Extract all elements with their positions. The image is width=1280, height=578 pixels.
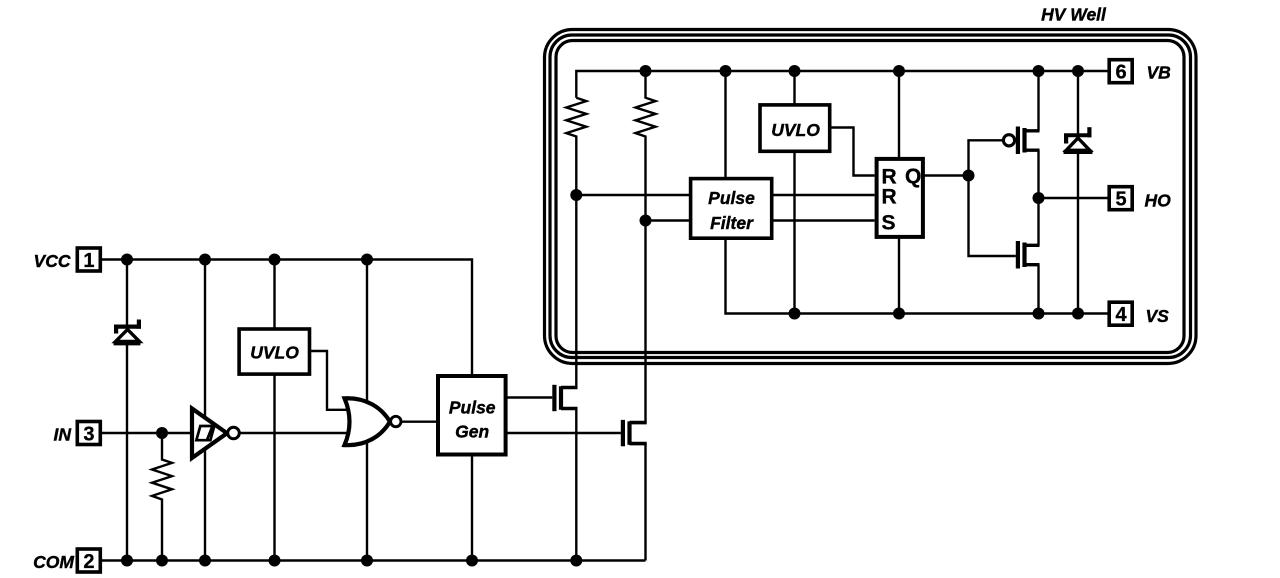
junction dot R3 node	[640, 215, 652, 227]
svg-text:4: 4	[1115, 304, 1127, 326]
wire Q1 source to VB rail	[1037, 71, 1039, 131]
wire zener D2 branch VB to VS	[1077, 71, 1079, 314]
svg-text:VS: VS	[1146, 306, 1170, 326]
wire zener D1 branch VCC to COM	[126, 260, 128, 561]
wire UVLO U1 branch VCC to COM	[273, 260, 275, 561]
wire latch Q output	[924, 174, 969, 176]
junction dot Q gate net	[963, 170, 975, 182]
resistor R1 pulldown on IN	[152, 433, 172, 561]
wire NOR output to Pulse Gen	[402, 421, 437, 423]
wire Q2 drain to HO node	[1037, 198, 1039, 245]
wire COM rail from pin 2 to M2 source	[102, 559, 646, 561]
wire Pulse Gen output to M2 gate	[507, 432, 621, 434]
wire Q1 drain to HO node	[1037, 150, 1039, 198]
wire Pulse Gen output to M1 gate	[507, 396, 553, 398]
resistor R2 (set)	[566, 98, 586, 195]
svg-text:HO: HO	[1145, 191, 1172, 211]
wire UVLO U2 branch VB to VS	[793, 71, 795, 314]
svg-text:Pulse: Pulse	[708, 188, 755, 208]
wire R2 node to Pulse Filter and latch R	[576, 194, 874, 196]
latch U3 RS box	[877, 159, 923, 237]
wire NOR branch VCC to COM	[366, 260, 368, 561]
wire M1 drain to HV well R2 node	[575, 195, 577, 388]
svg-text:HV Well: HV Well	[1041, 5, 1107, 25]
svg-text:1: 1	[83, 250, 94, 272]
svg-text:VB: VB	[1147, 62, 1171, 82]
wire inverter output to NOR input B	[239, 432, 352, 434]
junction dot IN node	[156, 427, 168, 439]
Pulse Gen box	[438, 376, 506, 455]
resistor R3 (reset)	[636, 71, 656, 221]
wire VB rail inside HV well	[576, 71, 1109, 98]
HV Well triple-border region	[545, 30, 1197, 364]
UVLO U2 box	[760, 105, 830, 151]
wire VS rail inside HV well	[726, 71, 1110, 314]
transistor M1 level shifter	[552, 385, 577, 411]
junction dots on COM rail	[121, 555, 582, 567]
wire R3 node to Pulse Filter and latch S	[646, 219, 875, 221]
svg-text:Filter: Filter	[710, 213, 754, 233]
svg-text:6: 6	[1115, 62, 1126, 84]
svg-text:S: S	[882, 212, 896, 235]
wire HO node to pin 5	[1039, 197, 1110, 199]
svg-text:IN: IN	[54, 425, 72, 445]
svg-text:3: 3	[83, 424, 94, 446]
wire UVLO U2 output to latch R	[832, 128, 875, 176]
pin 3 IN	[54, 422, 101, 446]
wire UVLO U1 output to NOR input A	[311, 351, 352, 410]
junction dots on VB rail	[640, 65, 1085, 77]
junction dot HO node	[1033, 192, 1045, 204]
transistor Q1 PMOS output	[1003, 127, 1039, 155]
wire IN from pin 3 to inverter input	[102, 432, 192, 434]
pin 1 VCC	[34, 248, 101, 272]
svg-text:R: R	[882, 186, 897, 209]
wire gate drive net to output transistors	[969, 140, 1016, 256]
pin 4 VS	[1109, 302, 1169, 326]
pin 2 COM	[33, 549, 100, 573]
svg-text:UVLO: UVLO	[771, 120, 820, 140]
svg-text:Q: Q	[905, 165, 921, 188]
wire latch branch VB to VS	[898, 71, 900, 314]
svg-text:COM: COM	[33, 552, 74, 572]
Pulse Filter box	[691, 179, 772, 239]
transistor Q2 NMOS output	[1016, 241, 1040, 269]
junction dots on VCC rail	[121, 254, 373, 266]
junction dot R2 node	[570, 189, 582, 201]
zener diode D2 bootstrap clamp	[1064, 127, 1093, 154]
svg-text:VCC: VCC	[34, 251, 71, 271]
svg-text:5: 5	[1115, 189, 1126, 211]
wire M2 source to COM	[644, 444, 646, 561]
pin 5 HO	[1109, 187, 1171, 211]
HV Well label	[1041, 5, 1107, 25]
junction dots on VS rail	[789, 308, 1085, 320]
wire inverter branch VCC to COM	[204, 260, 206, 561]
svg-text:Gen: Gen	[455, 421, 489, 441]
inverter (Schmitt trigger)	[192, 409, 239, 459]
wire VCC rail from pin 1 to Pulse Gen top	[102, 260, 472, 378]
UVLO U1 box	[239, 329, 309, 374]
pin 6 VB	[1109, 60, 1171, 84]
wire Pulse Gen bottom to COM	[471, 453, 473, 561]
wire M1 source to COM	[575, 409, 577, 561]
transistor M2 level shifter	[621, 420, 647, 446]
NOR gate G1	[345, 398, 401, 445]
wire Q2 source to VS rail	[1037, 265, 1039, 314]
svg-text:2: 2	[83, 551, 94, 573]
svg-text:Pulse: Pulse	[449, 397, 496, 417]
svg-text:UVLO: UVLO	[250, 342, 299, 362]
zener diode D1	[114, 320, 141, 346]
wire M2 drain to HV well R3 node	[644, 221, 646, 423]
